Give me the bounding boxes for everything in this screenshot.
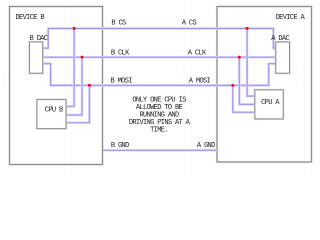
svg-text:CPU A: CPU A bbox=[261, 99, 280, 107]
svg-text:A GND: A GND bbox=[197, 142, 215, 150]
CPU B box bbox=[37, 100, 66, 129]
wire CPU A pin3 to MOSI bbox=[233, 85, 255, 112]
wire MOSI net (B DAC pin to MOSI trunk to A DAC pin) bbox=[43, 64, 276, 86]
svg-text:CPU B: CPU B bbox=[45, 107, 63, 115]
junction CLK / CPU B bbox=[81, 56, 84, 59]
CPU A box bbox=[255, 90, 283, 119]
wire CPU A pin1 to CS bbox=[247, 29, 255, 97]
A DAC box bbox=[276, 42, 290, 73]
svg-text:B DAC: B DAC bbox=[30, 35, 48, 43]
svg-text:DEVICE B: DEVICE B bbox=[16, 14, 45, 22]
wire CLK net (B DAC pin to A DAC pin) bbox=[43, 56, 276, 59]
junction MOSI / CPU A bbox=[231, 84, 234, 87]
svg-text:A MOSI: A MOSI bbox=[189, 77, 211, 85]
svg-text:B CS: B CS bbox=[111, 20, 126, 28]
svg-text:B CLK: B CLK bbox=[111, 49, 130, 57]
junction CS / CPU B bbox=[73, 27, 76, 30]
wire CPU B pin2 to CLK bbox=[66, 57, 82, 115]
wire CPU B pin1 to CS bbox=[66, 29, 74, 107]
device A enclosure bbox=[217, 7, 312, 163]
svg-text:A CS: A CS bbox=[182, 20, 197, 28]
B DAC box bbox=[30, 42, 43, 73]
wire CS net (B DAC pin to CS trunk to A DAC pin) bbox=[43, 29, 276, 49]
svg-text:B GND: B GND bbox=[111, 142, 129, 150]
device B enclosure bbox=[10, 7, 103, 165]
note text bbox=[129, 96, 191, 134]
junction MOSI / CPU B bbox=[88, 84, 91, 87]
wire CPU A pin2 to CLK bbox=[239, 57, 255, 104]
wire GND net bbox=[103, 149, 217, 152]
svg-text:B MOSI: B MOSI bbox=[111, 77, 133, 85]
svg-text:A DAC: A DAC bbox=[271, 35, 289, 43]
junction CS / CPU A bbox=[246, 27, 249, 30]
svg-text:TIME.: TIME. bbox=[150, 127, 168, 135]
wire CPU B pin3 to MOSI bbox=[66, 85, 89, 122]
svg-text:A CLK: A CLK bbox=[188, 49, 207, 57]
junction CLK / CPU A bbox=[238, 56, 241, 59]
svg-text:DEVICE A: DEVICE A bbox=[276, 14, 306, 22]
